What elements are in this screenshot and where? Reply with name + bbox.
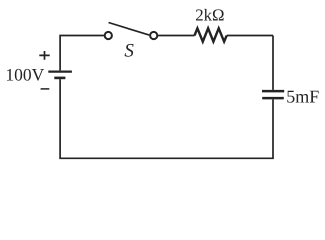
resistor R 2kΩ zigzag xyxy=(195,28,227,41)
minus sign of source xyxy=(41,88,50,90)
svg-text:5mF: 5mF xyxy=(286,86,319,106)
wire resistor to top-right corner xyxy=(227,35,273,37)
wire switch to resistor xyxy=(158,35,195,37)
svg-text:100V: 100V xyxy=(5,65,44,85)
svg-text:S: S xyxy=(124,40,134,61)
wire capacitor down, bottom wire, up to battery minus plate xyxy=(60,79,273,158)
switch S left contact xyxy=(105,32,112,39)
capacitor C bottom plate xyxy=(262,97,284,100)
switch S blade xyxy=(109,23,150,36)
capacitor C top plate xyxy=(262,90,284,93)
battery long plate (+) xyxy=(48,70,72,72)
switch S right contact xyxy=(150,32,157,39)
wire right side down to capacitor xyxy=(272,36,274,90)
svg-text:2kΩ: 2kΩ xyxy=(195,6,224,25)
wire top-left segment xyxy=(60,36,104,71)
battery short plate (−) xyxy=(54,77,65,80)
plus sign of source xyxy=(39,51,49,60)
